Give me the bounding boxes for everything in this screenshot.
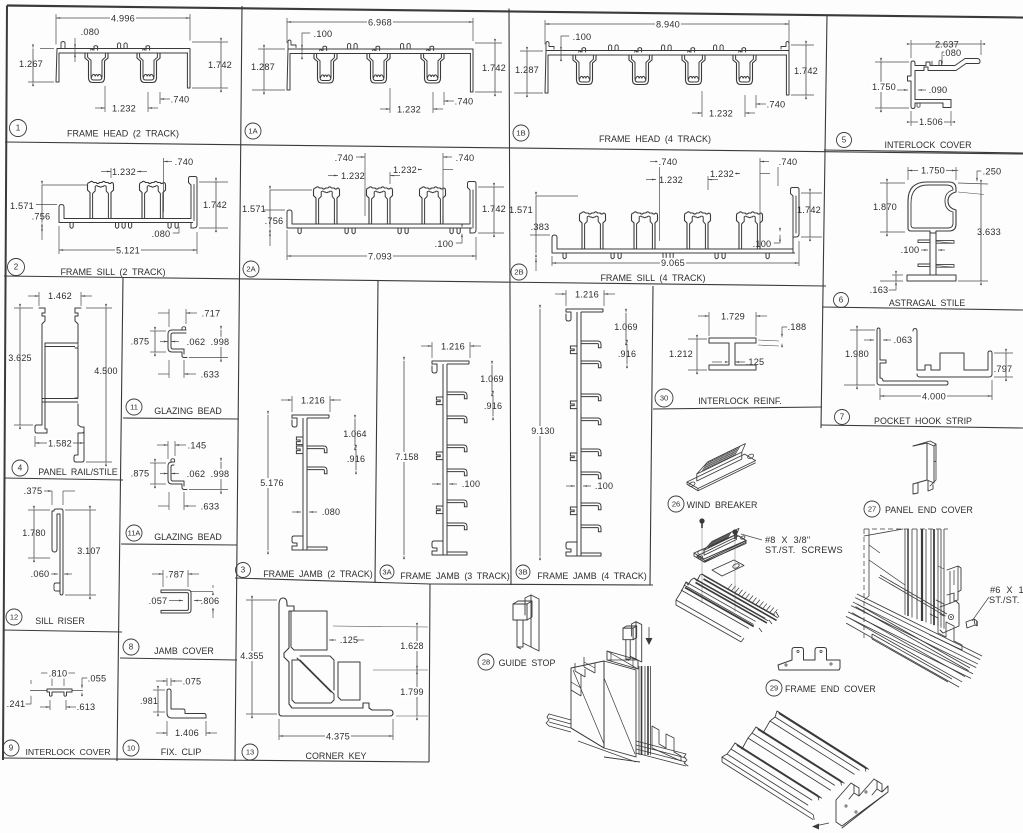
mounting plate (694, 535, 746, 560)
svg-text:2: 2 (14, 263, 19, 272)
assembly arrow (815, 823, 829, 826)
panel 5 interlock cover profile (908, 59, 981, 109)
svg-text:.100: .100 (753, 239, 772, 249)
panel 11 dim .717 (168, 309, 170, 327)
svg-text:28: 28 (482, 658, 490, 667)
left end section zigzag (722, 711, 781, 757)
svg-text:4.996: 4.996 (111, 14, 135, 24)
sheet outer border left (3, 6, 7, 761)
insertion arrow (648, 627, 650, 641)
panel 29 frame end cover 2d profile (778, 648, 840, 671)
panel 2B dim .740 left (659, 158, 661, 241)
panel 8 label (123, 639, 139, 655)
panel 1B dim .740 (755, 95, 757, 108)
svg-text:1.232: 1.232 (397, 105, 421, 115)
panel 8 jamb cover profile (161, 590, 191, 613)
panel 11 label (126, 399, 142, 415)
svg-text:4.355: 4.355 (240, 651, 264, 661)
panel 2 dim 1.571 (36, 204, 57, 206)
panel 11A label (126, 525, 142, 541)
panel 13 dim 1.799 (416, 670, 418, 716)
panel 2A dim .740 right (442, 153, 444, 216)
grid line panel5/6 (824, 150, 1023, 153)
svg-text:.633: .633 (201, 370, 220, 380)
svg-text:1.069: 1.069 (614, 322, 638, 332)
interlock bar left end section (676, 574, 705, 605)
svg-text:PANEL RAIL/STILE: PANEL RAIL/STILE (38, 467, 118, 477)
panel 2 label (8, 259, 25, 276)
panel 30 interlock reinf profile (709, 338, 756, 370)
svg-text:1.742: 1.742 (203, 200, 227, 210)
panel 5 dim 1.750 (875, 61, 909, 63)
interlock bar knurl hatch (728, 584, 733, 590)
svg-text:.100: .100 (462, 479, 480, 489)
svg-text:1.232: 1.232 (710, 169, 734, 179)
svg-text:.057: .057 (149, 596, 168, 606)
panel 4 dim 3.625 (14, 307, 33, 309)
svg-text:INTERLOCK COVER: INTERLOCK COVER (884, 140, 971, 150)
panel 2 sill teeth (70, 223, 73, 229)
svg-text:1.742: 1.742 (208, 60, 232, 70)
svg-text:FRAME HEAD (2 TRACK): FRAME HEAD (2 TRACK) (67, 129, 179, 139)
svg-text:FIX. CLIP: FIX. CLIP (161, 747, 202, 757)
svg-text:1.232: 1.232 (341, 171, 365, 181)
svg-text:.060: .060 (31, 569, 50, 579)
panel 1A dim 1.287 (258, 48, 285, 50)
panel 2B dim 9.065 (551, 256, 553, 266)
bottom border panels 9/10/13 (3, 758, 429, 762)
svg-text:1.742: 1.742 (482, 204, 506, 214)
svg-text:.055: .055 (88, 674, 107, 684)
panel 12 dim 3.107 (65, 509, 96, 511)
svg-text:.806: .806 (201, 596, 220, 606)
panel 3B dim 1.216 (565, 290, 567, 306)
panel 3 dim 1.216 (291, 396, 293, 412)
grid line panel12/9 (3, 630, 122, 632)
svg-text:5.176: 5.176 (260, 478, 284, 488)
panel 12 sill riser profile (51, 508, 63, 596)
panel 2A dim 1.232 left (389, 172, 391, 184)
panel end cover floating (947, 566, 961, 601)
plate lower part (712, 560, 744, 576)
panel 6 dim .163 (892, 274, 903, 276)
panel 5 label (837, 133, 852, 148)
interlock sill bar isometric (676, 600, 741, 637)
panel 11 dim .062 (160, 341, 168, 343)
panel 1B dim 1.287 (520, 50, 543, 52)
svg-text:3B: 3B (518, 568, 527, 577)
svg-text:2A: 2A (246, 265, 255, 274)
svg-text:.740: .740 (767, 100, 786, 110)
tee assembly jamb front face (604, 661, 636, 757)
svg-text:1.742: 1.742 (797, 205, 821, 215)
panel 13 dim 4.375 (278, 719, 280, 740)
svg-text:CORNER KEY: CORNER KEY (306, 751, 367, 761)
panel 4 label (12, 460, 28, 476)
svg-text:1.232: 1.232 (112, 104, 136, 114)
svg-text:1B: 1B (516, 129, 525, 138)
panel diagonal crease (869, 560, 905, 585)
svg-text:#6 X 1/: #6 X 1/ (990, 585, 1023, 595)
svg-text:3A: 3A (382, 568, 391, 577)
svg-text:1.287: 1.287 (251, 62, 275, 72)
svg-text:1.232: 1.232 (112, 167, 136, 177)
panel 10 dim .075 (166, 678, 168, 686)
panel 4 dim 1.462 (38, 292, 40, 306)
grid vertical 1A/1B continuing 2A/2B 3A/3B (509, 9, 511, 586)
panel 6 base flange (907, 275, 956, 281)
panel 3A dim 7.158 (403, 361, 405, 555)
panel 2A dim 7.093 (286, 230, 288, 260)
panel 2 dim 1.232 (110, 168, 112, 178)
svg-text:FRAME SILL (4 TRACK): FRAME SILL (4 TRACK) (600, 273, 705, 283)
svg-text:1.742: 1.742 (482, 63, 506, 73)
svg-text:ST./ST. S: ST./ST. S (989, 595, 1023, 605)
grid line row2/row3 (4, 276, 826, 286)
panel 2B label (511, 264, 527, 280)
svg-text:.717: .717 (202, 309, 221, 319)
screw guide lines (701, 528, 703, 603)
panel 2B dim 1.742 (801, 192, 822, 194)
svg-text:.125: .125 (340, 635, 358, 645)
grid line panel11/11A (123, 418, 238, 419)
panel 1A dim 1.232 (389, 88, 391, 113)
svg-text:.787: .787 (166, 570, 185, 580)
svg-text:.062: .062 (187, 469, 206, 479)
svg-text:.998: .998 (211, 337, 230, 347)
svg-text:5: 5 (842, 136, 847, 145)
svg-text:.075: .075 (183, 677, 202, 687)
svg-text:1A: 1A (248, 127, 257, 136)
panel 5 dim 1.506 (910, 111, 912, 126)
svg-text:.998: .998 (211, 469, 230, 479)
panel 1A dim 1.742 (475, 42, 502, 44)
svg-text:.633: .633 (201, 502, 220, 512)
panel 1 dim 1.742 (192, 41, 228, 43)
svg-text:.090: .090 (929, 85, 948, 95)
svg-text:.810: .810 (49, 669, 68, 679)
panel 1 dim 1.232 (104, 86, 106, 112)
panel 2A frame sill 3-track profile (292, 223, 470, 225)
svg-text:.100: .100 (595, 481, 613, 491)
svg-text:7.093: 7.093 (368, 252, 392, 262)
screw (699, 518, 704, 523)
svg-text:1.742: 1.742 (794, 66, 818, 76)
grid vertical col 1/1A continuing to corner-key (235, 6, 242, 761)
panel 9 label (3, 740, 19, 756)
jamb face diagonals (573, 670, 604, 744)
panel 7 dim 4.000 (879, 388, 881, 400)
svg-text:1.628: 1.628 (400, 641, 424, 651)
panel 6 astragal stile profile (908, 182, 956, 233)
panel 3A dim .916 (492, 395, 494, 416)
svg-text:.756: .756 (32, 212, 51, 222)
panel 11 dim .633 (168, 360, 170, 378)
svg-text:.383: .383 (531, 222, 550, 232)
grid line panel4/12 (4, 478, 123, 480)
sheet outer border top (7, 6, 1023, 18)
svg-text:1: 1 (16, 124, 21, 133)
jamb web (292, 415, 329, 427)
panel 13 dim 4.355 (246, 599, 277, 601)
panel 10 fix. clip profile (167, 689, 206, 718)
panel 11 glazing bead profile (168, 330, 187, 358)
jamb web (566, 309, 603, 321)
svg-text:.916: .916 (618, 349, 636, 359)
interlock bar right end (741, 638, 744, 642)
svg-text:9.130: 9.130 (531, 426, 555, 436)
svg-text:.163: .163 (870, 285, 889, 295)
svg-text:6: 6 (839, 296, 844, 305)
svg-text:1.232: 1.232 (393, 165, 417, 175)
sill long rails (857, 594, 982, 656)
svg-text:WIND BREAKER: WIND BREAKER (687, 500, 758, 510)
panel 2B dim 1.571 (530, 234, 550, 236)
svg-text:FRAME JAMB (4 TRACK): FRAME JAMB (4 TRACK) (537, 571, 647, 581)
panel 11A dim .998 (220, 462, 222, 490)
panel 2A sill teeth (298, 228, 301, 234)
panel 2 frame sill 2-track profile (64, 218, 191, 220)
panel 5 dim .090 (897, 89, 908, 91)
panel 11A dim .145 (167, 441, 169, 459)
panel 12 label (6, 609, 22, 625)
grid vertical right of 3B / left of 30 (650, 286, 653, 585)
panel 13 corner key profile outline (279, 598, 394, 715)
svg-text:3: 3 (241, 566, 246, 575)
panel 29 label (766, 680, 782, 696)
svg-text:1.870: 1.870 (873, 202, 897, 212)
panel 1A dim .740 (443, 92, 445, 105)
svg-text:.613: .613 (77, 702, 96, 712)
panel 30 label (655, 389, 673, 407)
svg-text:1.069: 1.069 (480, 374, 504, 384)
svg-text:1.582: 1.582 (48, 439, 72, 449)
panel 2 dim 5.121 (58, 226, 60, 254)
panel 1B dim 1.742 (791, 44, 814, 46)
panel 3A label (380, 565, 394, 579)
svg-text:.080: .080 (322, 507, 340, 517)
svg-text:ASTRAGAL STILE: ASTRAGAL STILE (889, 298, 965, 308)
svg-text:.100: .100 (573, 32, 592, 42)
svg-text:.241: .241 (7, 699, 26, 709)
panel 11A dim .633 (168, 492, 170, 510)
panel 12 dim 1.780 (28, 509, 50, 511)
jamb right fin lines (638, 666, 640, 755)
svg-text:30: 30 (660, 394, 668, 403)
svg-text:POCKET HOOK STRIP: POCKET HOOK STRIP (874, 416, 972, 426)
sill cross channels right end (930, 614, 962, 650)
panel 9 dim .613 (49, 700, 51, 710)
svg-text:4: 4 (18, 464, 23, 473)
svg-text:7.158: 7.158 (395, 452, 419, 462)
panel 4 panel rail/stile profile (35, 308, 48, 433)
panel 6 dim 1.750 (907, 167, 909, 180)
svg-text:1.287: 1.287 (515, 65, 539, 75)
tee assembly jamb left face (571, 661, 604, 748)
window panel face (864, 529, 903, 536)
panel 28 guide stop isometric (531, 595, 539, 651)
panel 30 dim .125 (712, 361, 722, 363)
sill rail left stub (549, 714, 571, 720)
panel 2B dim 1.232 left (707, 176, 709, 190)
right end ticks (813, 815, 814, 820)
svg-text:.740: .740 (175, 157, 194, 167)
panel 3A dim 1.069 (471, 362, 504, 364)
svg-text:1.571: 1.571 (509, 205, 533, 215)
svg-text:1.750: 1.750 (872, 82, 896, 92)
svg-text:8: 8 (129, 643, 134, 652)
svg-text:.756: .756 (265, 216, 284, 226)
panel 10 label (123, 740, 139, 756)
panel 30 dim 1.212 (688, 338, 707, 340)
panel 2A dim 1.232 right (412, 169, 422, 171)
svg-text:.375: .375 (24, 486, 43, 496)
svg-text:9: 9 (9, 744, 14, 753)
panel 11A dim .062 (160, 473, 168, 475)
sill front bottom edge (872, 634, 952, 679)
svg-text:.080: .080 (81, 27, 100, 37)
panel 1B frame head 4-track profile (546, 50, 789, 52)
panel 8 dim .787 (162, 570, 164, 587)
svg-text:4.000: 4.000 (922, 392, 946, 402)
panel 9 dim .810 (51, 670, 53, 686)
svg-text:3.625: 3.625 (8, 353, 32, 363)
svg-text:13: 13 (246, 748, 254, 757)
panel 26 label (668, 496, 684, 512)
svg-text:INTERLOCK REINF.: INTERLOCK REINF. (698, 396, 782, 406)
svg-text:1.729: 1.729 (721, 312, 745, 322)
svg-text:.100: .100 (901, 245, 920, 255)
svg-text:.916: .916 (347, 454, 365, 464)
panel 2B frame sill 4-track profile (557, 248, 793, 250)
svg-text:.740: .740 (171, 95, 190, 105)
jamb head blocks upper left (570, 668, 572, 690)
panel 1 label (10, 120, 27, 137)
panel 27 legs (913, 483, 918, 494)
svg-text:10: 10 (127, 744, 135, 753)
svg-text:INTERLOCK COVER: INTERLOCK COVER (25, 747, 110, 757)
interlock cover plate with hole (940, 601, 959, 633)
panel 2 dim .740 (163, 158, 165, 212)
svg-text:4.375: 4.375 (326, 732, 350, 742)
panel 1A frame head 3-track profile (288, 48, 473, 50)
panel 5 flange nubs (932, 60, 942, 65)
svg-text:.981: .981 (140, 696, 158, 706)
panel 3 dim .916 (355, 449, 357, 470)
panel 1B dim 1.232 (701, 91, 703, 117)
panel 3 dim 5.176 (267, 415, 269, 550)
detail boundary dashed lines (863, 529, 865, 640)
svg-text:FRAME END COVER: FRAME END COVER (785, 684, 876, 694)
panel 28 label (478, 654, 494, 670)
svg-text:1.462: 1.462 (48, 291, 72, 301)
svg-text:6.968: 6.968 (368, 18, 392, 28)
grid line row1/row2 (5, 142, 1023, 154)
sill rail right portion (636, 741, 686, 754)
panel 2B dim .740 right (759, 158, 761, 241)
svg-text:GLAZING BEAD: GLAZING BEAD (154, 532, 222, 542)
panel 30 dim 1.729 (708, 312, 710, 336)
svg-text:FRAME HEAD (4 TRACK): FRAME HEAD (4 TRACK) (599, 134, 711, 144)
svg-text:1.216: 1.216 (441, 342, 465, 352)
svg-text:.062: .062 (187, 337, 206, 347)
front ridge channel (735, 743, 818, 795)
panel 1 dim 1.267 (40, 48, 54, 50)
grid line jamb row bottom (235, 578, 430, 584)
panel 2B dim 1.232 right (730, 173, 740, 175)
svg-text:.100: .100 (435, 239, 454, 249)
svg-text:1.064: 1.064 (343, 429, 367, 439)
panel 26 wind breaker isometric (687, 454, 756, 488)
panel 7 label (835, 410, 850, 425)
svg-text:1.780: 1.780 (22, 528, 46, 538)
middle ridge channel (756, 727, 841, 780)
panel 7 dim .797 (994, 352, 1013, 354)
svg-text:FRAME JAMB (2 TRACK): FRAME JAMB (2 TRACK) (263, 569, 373, 579)
frame end cover attached W plate (836, 779, 888, 828)
panel 4 dim 4.500 (86, 307, 112, 309)
panel 3B dim 9.130 (539, 309, 541, 556)
panel 3A dim 1.216 (431, 342, 433, 358)
panel 6 dim 3.633 (958, 183, 988, 184)
panel 2A dim 1.571 (264, 209, 285, 211)
svg-text:.080: .080 (152, 229, 171, 239)
svg-text:1.980: 1.980 (845, 349, 869, 359)
svg-text:26: 26 (672, 500, 680, 509)
panel 1 frame head 2-track profile (57, 48, 190, 50)
svg-text:1.212: 1.212 (669, 349, 693, 359)
panel 1 dim .740 (159, 92, 161, 104)
svg-text:3.107: 3.107 (77, 546, 101, 556)
svg-text:5.121: 5.121 (116, 246, 140, 256)
jamb web (432, 361, 469, 373)
svg-text:1.216: 1.216 (575, 290, 599, 300)
panel 27 panel end cover isometric (913, 443, 927, 484)
leader line to #6 screw text (972, 597, 989, 621)
svg-text:.100: .100 (314, 29, 333, 39)
panel 6 stem and fins (930, 233, 936, 275)
svg-text:1.571: 1.571 (10, 201, 34, 211)
panel 6 dim 1.870 (880, 182, 905, 184)
svg-text:9.065: 9.065 (661, 258, 685, 268)
svg-text:4.500: 4.500 (94, 366, 118, 376)
svg-text:.875: .875 (131, 337, 150, 347)
panel 13 corner key inner cavities (291, 611, 327, 650)
svg-text:2B: 2B (514, 268, 523, 277)
panel 10 dim 1.406 (166, 721, 168, 736)
panel 11A dim .875 (150, 462, 166, 464)
panel 10 dim .981 (153, 689, 165, 691)
panel 4 dim 1.582 (34, 436, 36, 447)
svg-text:.740: .740 (455, 97, 474, 107)
svg-text:1.232: 1.232 (659, 175, 683, 185)
panel 7 pocket hook strip profile (877, 328, 948, 385)
svg-text:GLAZING BEAD: GLAZING BEAD (154, 406, 222, 416)
svg-text:.080: .080 (943, 48, 962, 58)
panel 11 dim .875 (150, 330, 166, 332)
svg-text:.740: .740 (456, 153, 475, 163)
svg-text:11A: 11A (128, 529, 141, 538)
svg-text:#8 X 3/8": #8 X 3/8" (765, 535, 810, 545)
grid vertical col1/col2 row3 (117, 277, 123, 761)
screw (732, 529, 737, 534)
svg-text:.740: .740 (779, 157, 798, 167)
panel 2B sill teeth (563, 253, 566, 259)
guide stop above tee assembly (636, 622, 642, 662)
svg-text:29: 29 (770, 684, 778, 693)
panel 3B label (516, 565, 530, 579)
svg-text:.063: .063 (894, 335, 913, 345)
